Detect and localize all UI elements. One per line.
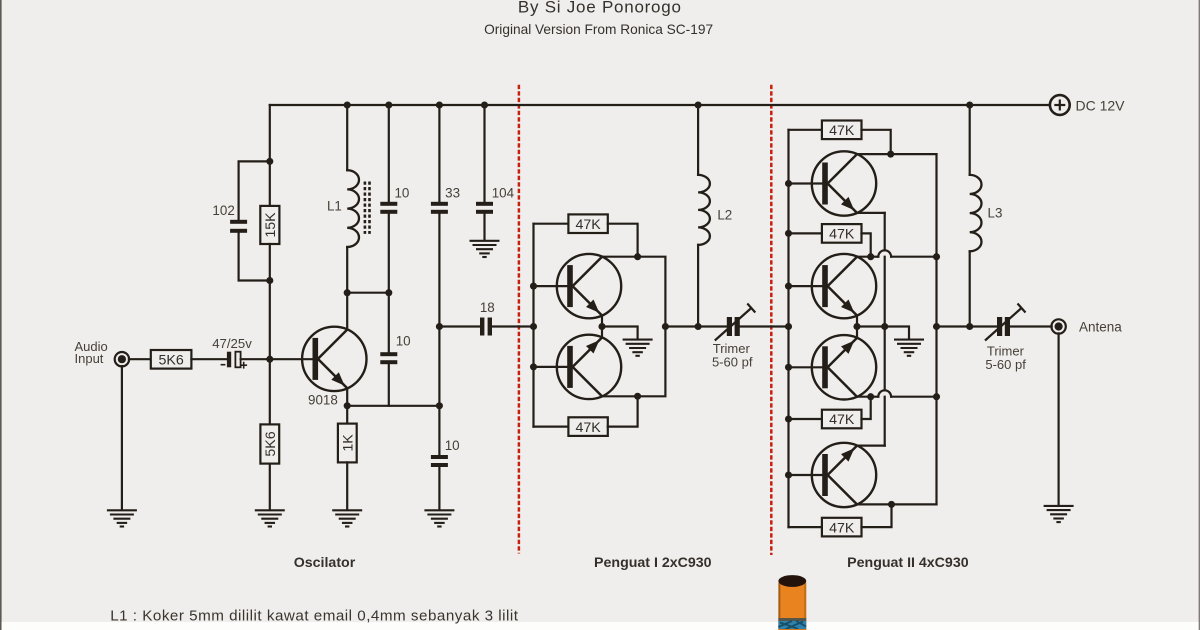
trimmer VC1	[727, 317, 732, 336]
resistor R5 47K	[568, 214, 607, 233]
capacitor C1 102	[230, 220, 247, 224]
bottom white strip	[2, 622, 1199, 630]
svg-text:L2: L2	[717, 207, 732, 222]
inductor L3	[970, 175, 982, 251]
wire T3 collector	[857, 153, 891, 155]
node T3 collector	[887, 151, 894, 158]
stage2 collector bus	[935, 154, 937, 504]
wire L3 bottom lead	[969, 251, 971, 326]
svg-text:Oscilator: Oscilator	[294, 555, 356, 571]
node emitters mid 1	[853, 323, 860, 330]
wire 47K-1 left	[789, 129, 822, 131]
wire T6 base	[789, 474, 823, 476]
capacitor C7 104	[476, 202, 493, 206]
wire Q3 collector to bus	[638, 327, 666, 397]
svg-text:18: 18	[480, 300, 495, 315]
wire Q2 base	[534, 285, 568, 287]
node collector-C10b	[385, 289, 392, 296]
wire T4 base	[789, 285, 823, 287]
node collector bus output	[933, 323, 940, 330]
wire 102 branch	[239, 161, 270, 280]
svg-text:Penguat II 4xC930: Penguat II 4xC930	[847, 555, 969, 571]
hop over emitter line 1	[878, 250, 891, 256]
node rail-C10a	[385, 101, 392, 108]
label plus	[240, 364, 247, 366]
resistor R10 47K	[822, 518, 862, 537]
wire rail drop to bias node	[269, 105, 271, 161]
resistor R8 47K	[822, 224, 862, 243]
stage1 base bus	[532, 224, 534, 427]
wire input to R1	[129, 358, 151, 360]
wire input connector ground stub	[121, 366, 123, 509]
node rail-L2	[695, 101, 702, 108]
wire C10b top lead	[388, 293, 390, 353]
wire T3 collector to bus	[891, 153, 937, 155]
wire 47K-B left	[534, 426, 569, 428]
resistor R3 5K6 vertical	[260, 424, 279, 463]
capacitor C4 10	[380, 352, 397, 356]
inductor L2	[698, 175, 710, 245]
wire T5 emitter	[856, 327, 858, 339]
node base bus Q2	[530, 283, 537, 290]
transistor Q3 C930	[557, 335, 621, 399]
antenna connector	[1051, 319, 1065, 333]
wire L3 top lead	[969, 105, 971, 175]
wire R1 to C2	[191, 358, 227, 360]
node bus input	[785, 323, 792, 330]
trimmer VC2	[997, 317, 1002, 336]
svg-text:47K: 47K	[829, 520, 855, 536]
ground C10c	[424, 509, 454, 511]
node stage1 emitters	[598, 323, 605, 330]
node stage1 output	[662, 323, 669, 330]
wire Q3 collector	[602, 395, 638, 397]
wire Q1 emitter	[346, 388, 348, 406]
wire T6 collector to bus	[892, 503, 937, 505]
ground R3	[255, 509, 285, 511]
ground antenna	[1044, 505, 1074, 507]
capacitor C8 18	[480, 318, 484, 336]
wire T6 collector	[857, 503, 892, 505]
node rail-C104	[481, 101, 488, 108]
wire stage1 emitters to ground	[602, 327, 638, 339]
capacitor C3 10	[380, 202, 397, 206]
svg-text:DC 12V: DC 12V	[1076, 97, 1126, 113]
wire C18 to stage1	[492, 325, 533, 327]
wire antenna ground stub	[1057, 333, 1059, 505]
section divider dashed line 2	[770, 85, 773, 555]
svg-text:L3: L3	[988, 206, 1003, 221]
svg-text:10: 10	[396, 333, 411, 348]
wire osc output to C18	[439, 325, 479, 327]
svg-text:L1 : Koker 5mm dililit kawat e: L1 : Koker 5mm dililit kawat email 0,4mm…	[110, 608, 519, 625]
wire 47K-1 right	[862, 130, 891, 154]
wire Q2 emitter	[601, 315, 603, 326]
wire Q3 base	[534, 366, 568, 368]
wire 47K-2 left	[789, 232, 822, 234]
wire C104 top lead	[483, 105, 485, 202]
svg-text:Penguat I 2xC930: Penguat I 2xC930	[594, 555, 712, 571]
node L3 bottom	[966, 323, 973, 330]
wire C2 to base	[241, 358, 313, 360]
wire 47K-4 right	[862, 504, 892, 527]
svg-text:By Si Joe Ponorogo: By Si Joe Ponorogo	[518, 0, 682, 17]
wire T3 emitter	[857, 212, 885, 214]
wire 47K-A right	[608, 224, 638, 257]
wire T4 collector to bus with hop	[871, 256, 879, 258]
svg-text:L1: L1	[327, 198, 342, 213]
wire stage2 output	[937, 325, 998, 327]
node base junction	[266, 356, 273, 363]
wire C104 to ground	[483, 214, 485, 240]
wire Q3 emitter	[601, 327, 603, 338]
wire C10a bottom lead	[388, 214, 390, 293]
wire 47K-3 left	[789, 418, 822, 420]
node bias top	[266, 158, 273, 165]
L1 ferrite core dashed	[364, 182, 367, 234]
node T5 collector	[867, 393, 874, 400]
wire T5 collector	[857, 396, 871, 398]
svg-text:102: 102	[212, 203, 234, 218]
svg-text:47K: 47K	[829, 227, 855, 243]
wire osc output to emitter wire	[438, 327, 440, 406]
svg-text:47/25v: 47/25v	[212, 336, 252, 351]
ground input	[107, 509, 137, 511]
wire T3 base	[789, 182, 823, 184]
wire T5 base	[789, 366, 823, 368]
node Q3 collector	[634, 393, 641, 400]
node bias bottom	[266, 277, 273, 284]
svg-text:47K: 47K	[575, 217, 601, 233]
node bus collector 2	[933, 253, 940, 260]
resistor R9 47K	[822, 410, 862, 429]
node emitter-C10c	[436, 402, 443, 409]
resistor R1 5K6	[151, 350, 192, 369]
node bus 47K3	[785, 415, 792, 422]
wire T6 emitter	[857, 445, 885, 447]
svg-text:5K6: 5K6	[263, 431, 279, 456]
svg-text:47K: 47K	[829, 123, 855, 139]
svg-text:104: 104	[492, 186, 515, 201]
svg-text:Original Version From Ronica S: Original Version From Ronica SC-197	[484, 22, 713, 37]
wire 47K-A left	[534, 223, 569, 225]
node emitter-R4	[344, 402, 351, 409]
ground stage1	[623, 339, 653, 341]
wire C33 to output node	[438, 214, 440, 327]
node base bus Q3	[530, 363, 537, 370]
node T4 collector	[867, 253, 874, 260]
node Q2 collector	[634, 253, 641, 260]
node base bus input	[530, 323, 537, 330]
wire 47K-3 right	[862, 397, 871, 419]
wire 47K-2 right	[862, 233, 871, 256]
node osc output	[436, 323, 443, 330]
wire Q1 collector	[346, 293, 348, 330]
node T6 collector	[888, 501, 895, 508]
node collector-L1	[344, 289, 351, 296]
wire +12V supply rail	[270, 104, 1050, 106]
svg-text:Antena: Antena	[1079, 319, 1122, 334]
wire Q2 collector to bus	[638, 257, 666, 327]
capacitor C5 33	[431, 202, 448, 206]
svg-text:1K: 1K	[340, 434, 356, 452]
svg-text:47K: 47K	[575, 420, 601, 436]
wire emitter to R4	[346, 406, 348, 424]
node rail-C33	[436, 101, 443, 108]
resistor R2 15K	[260, 206, 279, 244]
hop over emitter line 2	[878, 390, 891, 396]
wire bias to base node	[269, 281, 271, 360]
transistor T3 C930	[812, 151, 876, 215]
wire L2 top lead	[697, 105, 699, 175]
wire trimmer1 to stage2	[740, 325, 789, 327]
left page border	[0, 0, 2, 630]
wire C33 top lead	[438, 105, 440, 202]
svg-text:47K: 47K	[829, 412, 855, 428]
ground stage2	[894, 339, 924, 341]
wire trimmer2 to antenna	[1010, 325, 1052, 327]
wire emitter bus	[347, 405, 439, 407]
ground R4	[332, 509, 362, 511]
transistor T5 C930	[812, 335, 876, 399]
resistor R6 47K	[568, 417, 607, 436]
node emitters mid 2	[881, 323, 888, 330]
node rail-L3	[966, 101, 973, 108]
transistor Q1 9018	[302, 327, 366, 391]
label minus	[221, 364, 226, 366]
node bus 47K2	[785, 230, 792, 237]
wire R3 to ground	[269, 464, 271, 510]
svg-text:5-60 pf: 5-60 pf	[712, 355, 753, 370]
wire 47K-B right	[608, 396, 638, 426]
svg-text:9018: 9018	[308, 393, 338, 408]
inductor L1	[347, 170, 359, 247]
wire L1 top lead	[346, 105, 348, 170]
capacitor C6 10	[431, 455, 448, 459]
wire T4 collector	[857, 256, 871, 258]
wire R4 to ground	[346, 462, 348, 509]
audio input connector	[115, 352, 129, 366]
svg-text:5-60 pf: 5-60 pf	[985, 357, 1026, 372]
node bus T3 base	[785, 180, 792, 187]
node bus T5 base	[785, 364, 792, 371]
ground C104	[470, 240, 500, 242]
wire 15K top lead	[269, 161, 271, 206]
svg-text:Trimer: Trimer	[713, 341, 751, 356]
node bus T4 base	[785, 283, 792, 290]
wire stage2 emitters to ground	[857, 327, 909, 339]
wire L2 bottom lead	[697, 245, 699, 327]
svg-text:Input: Input	[75, 351, 104, 366]
wire C10a top lead	[388, 105, 390, 202]
resistor R7 47K	[822, 121, 862, 140]
svg-text:10: 10	[445, 438, 460, 453]
node bus collector 3	[933, 393, 940, 400]
wire Q2 collector	[602, 256, 638, 258]
stage2 base bus	[787, 130, 789, 527]
wire L1 bottom lead	[346, 247, 348, 293]
wire C10c to ground	[438, 467, 440, 509]
wire T5 collector to bus with hop	[871, 396, 879, 398]
wire 47K-4 left	[789, 526, 822, 528]
wire collector bus	[347, 292, 389, 294]
svg-text:33: 33	[445, 186, 460, 201]
svg-text:15K: 15K	[263, 212, 279, 238]
node bus T6 base	[785, 471, 792, 478]
transistor T6 C930	[812, 443, 876, 507]
emitter tie line	[884, 213, 886, 446]
node L2 bottom	[695, 323, 702, 330]
transistor T4 C930	[812, 254, 876, 318]
right page border	[1199, 0, 1200, 630]
DC 12V plus terminal	[1050, 95, 1070, 115]
wire 15K bottom lead	[269, 244, 271, 281]
svg-text:10: 10	[394, 186, 409, 201]
resistor R4 1K	[338, 424, 357, 463]
wire stage1 output	[665, 325, 727, 327]
wire T4 emitter	[856, 315, 858, 326]
wire base node to R3	[269, 359, 271, 424]
section divider dashed line 1	[518, 85, 521, 554]
transistor Q2 C930	[557, 254, 621, 318]
pencil graphic	[778, 581, 806, 630]
wire C10b bottom lead	[388, 364, 390, 406]
node rail-L1	[344, 101, 351, 108]
svg-text:5K6: 5K6	[158, 353, 183, 369]
wire to C10c	[438, 406, 440, 455]
capacitor C2 47/25v electrolytic	[227, 352, 231, 368]
